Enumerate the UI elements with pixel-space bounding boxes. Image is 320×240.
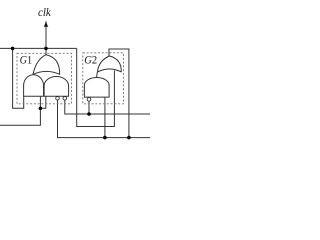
wire G2 and output bbox=[97, 71, 98, 78]
wire clk horizontal bus bbox=[0, 47, 77, 49]
junction node pins bbox=[39, 107, 43, 111]
dashed box G2 bbox=[83, 53, 124, 104]
junction node mid bus bbox=[87, 112, 91, 116]
inversion bubble G1c pin2 bbox=[56, 97, 60, 101]
inversion bubble G1c pin3 bbox=[63, 97, 67, 101]
wire input a from left edge bbox=[0, 96, 40, 125]
wire left vertical from clk line bbox=[13, 48, 24, 108]
dashed box G1 bbox=[17, 53, 72, 104]
svg-text:G1: G1 bbox=[20, 52, 32, 66]
junction node bottom bus 1 bbox=[103, 136, 107, 140]
wire G1 output to clk node bbox=[45, 48, 47, 56]
wire bubble pin to mid bus bbox=[65, 100, 150, 114]
and-gate G2b bbox=[84, 77, 109, 97]
svg-text:G2: G2 bbox=[84, 52, 97, 66]
junction node bottom bus 2 bbox=[127, 136, 131, 140]
clk arrow bbox=[44, 20, 49, 48]
or-gate G1a bbox=[33, 55, 60, 75]
wire G2 or output feedback bbox=[109, 49, 129, 138]
junction node clk left bbox=[11, 47, 15, 51]
and-gate G1c bbox=[44, 77, 69, 97]
wire bubble pin to bottom bus bbox=[58, 100, 151, 137]
wire joining gate pins at node bbox=[40, 96, 45, 108]
and-gate G1b bbox=[24, 75, 44, 97]
svg-text:clk: clk bbox=[38, 5, 51, 19]
wire G2 bubble pin bbox=[88, 102, 90, 114]
or-gate G2a bbox=[98, 56, 122, 72]
wire G2 and right pin to bottom bus bbox=[104, 97, 106, 137]
wire feedback right vertical from clk line bbox=[77, 48, 115, 126]
inversion bubble G2b pin1 bbox=[87, 98, 91, 102]
junction node clk bbox=[44, 47, 48, 51]
